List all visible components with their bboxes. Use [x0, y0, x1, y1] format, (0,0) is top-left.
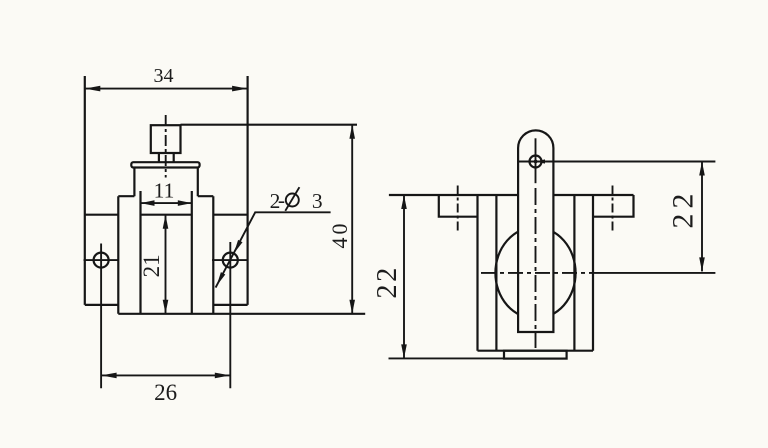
svg-text:3: 3	[312, 189, 323, 213]
bottom plate	[504, 351, 567, 359]
wing bottom edges	[85, 304, 248, 306]
pivot hole center dot	[534, 160, 538, 164]
hole left h-centerline	[84, 259, 120, 261]
dim 40 line	[351, 125, 353, 314]
coil ellipse	[495, 227, 575, 318]
dim 26 arrow right	[215, 373, 231, 379]
wing top edges	[85, 214, 248, 216]
dim 11 arrow right	[178, 200, 192, 206]
bottom plate extension line / left 22 bottom	[389, 357, 505, 359]
dim 21 arrow up	[163, 215, 169, 229]
hole right v-centerline / 26 extension	[229, 242, 231, 388]
dim 21 line	[165, 215, 167, 314]
right mounting flange	[593, 195, 634, 217]
dim left 22 arrow down	[401, 344, 407, 358]
dim 40 arrow up	[349, 125, 355, 139]
dim left 22 arrow up	[401, 195, 407, 209]
dim 26 arrow left	[101, 373, 117, 379]
centerline vertical (plunger axis)	[165, 115, 167, 178]
pivot small arrow	[536, 159, 545, 163]
label 2-Ø3 diameter symbol	[286, 194, 299, 207]
svg-text:40: 40	[327, 221, 352, 249]
extension line through pivot / right 22 top	[518, 161, 715, 163]
svg-text:21: 21	[139, 254, 164, 277]
dim 26 line	[101, 374, 230, 376]
plunger block	[151, 125, 181, 153]
top edge line with lever gap / 22 extension	[389, 194, 634, 196]
dim 21 arrow down	[163, 300, 169, 314]
ellipse h-centerline / right 22 bottom extension	[481, 272, 597, 274]
leader line 2-Ø3	[216, 212, 331, 287]
leader arrowhead at hole edge	[234, 240, 243, 254]
lever pivot hole	[530, 156, 542, 168]
dim 11 arrow left	[141, 200, 155, 206]
body outer edges	[478, 195, 594, 351]
dim 34 arrow right	[232, 86, 248, 92]
central body inner verticals	[118, 196, 213, 314]
step shoulders	[118, 195, 213, 197]
leader arrowhead at end	[217, 272, 226, 286]
dim 11 line	[141, 202, 192, 204]
svg-text:22: 22	[372, 265, 403, 299]
hole left	[94, 253, 109, 268]
outer frame edges / 34 extension lines	[85, 76, 248, 305]
dim 34 arrow left	[85, 86, 101, 92]
plunger neck	[159, 153, 174, 162]
left mounting flange	[439, 195, 478, 217]
flange screw centerline right	[612, 186, 614, 232]
dim left 22 line	[403, 195, 405, 358]
body inner verticals	[496, 195, 574, 351]
svg-text:26: 26	[154, 380, 177, 405]
svg-text:34: 34	[154, 65, 174, 87]
dim right 22 line	[701, 162, 703, 272]
dim 34 line	[85, 88, 248, 90]
slot top edge	[141, 214, 192, 216]
bobbin top flange	[131, 162, 199, 167]
dim 40 arrow down	[349, 300, 355, 314]
dim right 22 arrow down	[699, 257, 705, 271]
hole right h-centerline	[212, 259, 248, 261]
coil body upper sides	[134, 168, 197, 197]
dim right 22 arrow up	[699, 162, 705, 176]
svg-text:-: -	[278, 188, 285, 212]
svg-text:22: 22	[667, 189, 700, 229]
hole left v-centerline / 26 extension	[100, 244, 102, 389]
body bottom	[478, 350, 594, 352]
svg-text:11: 11	[154, 179, 175, 203]
lever centerline	[535, 138, 537, 183]
extension line top of 40 dim	[181, 124, 358, 126]
slot side edges / 11 extension lines	[141, 191, 192, 314]
hole right	[223, 253, 238, 268]
body bottom edge / 40 bottom extension	[118, 313, 365, 315]
lever arm (opaque, covers ellipse)	[518, 130, 553, 332]
flange screw centerline left	[457, 186, 459, 232]
